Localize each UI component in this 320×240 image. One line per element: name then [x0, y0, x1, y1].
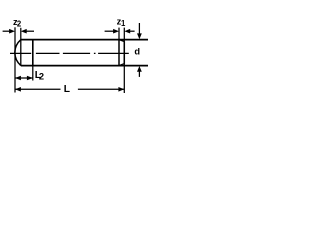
L2 dimension line	[15, 77, 33, 79]
extension line below L2 feature	[32, 66, 34, 81]
d bottom arrow (up)	[137, 66, 142, 72]
L2 left arrow	[15, 76, 21, 81]
L2 right arrow	[27, 76, 33, 81]
z2 dimension line left tail	[3, 30, 10, 32]
svg-text:L: L	[64, 84, 70, 95]
z1 right arrow	[124, 29, 130, 34]
svg-text:1: 1	[121, 19, 126, 28]
centerline (dash-dot axis)	[10, 52, 129, 54]
extension line at end face (z1/L)	[123, 28, 125, 93]
chamfer diagonal bottom	[119, 64, 124, 66]
end face	[123, 41, 125, 63]
extension line above dome junction (z2)	[20, 28, 22, 40]
z1 left arrow	[113, 29, 119, 34]
z2 left arrow	[9, 29, 15, 34]
svg-text:2: 2	[17, 19, 22, 28]
dome arc (rounded left end)	[15, 40, 21, 66]
svg-text:2: 2	[39, 72, 44, 82]
z1 dimension line right tail	[130, 30, 135, 32]
d dimension line bottom tail	[138, 71, 140, 77]
chamfer start line	[118, 40, 120, 66]
d top arrow (down)	[137, 33, 142, 39]
L right arrow	[118, 87, 124, 92]
feature line at end of rounded section (L2)	[32, 40, 34, 66]
L left arrow	[15, 87, 21, 92]
d dimension line top tail	[138, 23, 140, 34]
L dimension line	[15, 88, 124, 90]
z2 dimension line right tail	[26, 30, 34, 32]
z1 dimension line left tail	[105, 30, 114, 32]
chamfer diagonal top	[119, 40, 124, 42]
z2 right arrow	[21, 29, 27, 34]
dome junction line	[20, 40, 22, 66]
svg-text:d: d	[134, 47, 140, 57]
extension line above chamfer start (z1)	[118, 28, 120, 40]
extension line at pin tip (left, for z2/L2/L)	[14, 27, 16, 92]
pin bottom edge with extension to d dimension	[21, 65, 148, 67]
pin top edge with extension to d dimension	[21, 39, 148, 41]
